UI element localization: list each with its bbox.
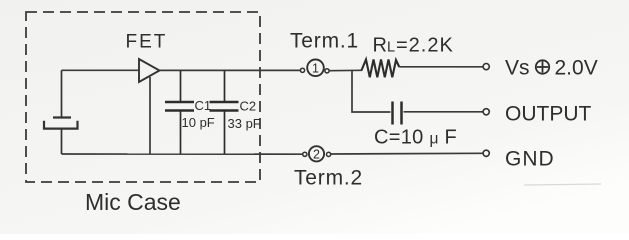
transistor FET (amplifier triangle) — [139, 59, 160, 82]
svg-text:C=10 μ F: C=10 μ F — [374, 127, 457, 149]
mic case enclosure (dashed box) — [26, 12, 260, 182]
svg-text:Term.2: Term.2 — [294, 167, 363, 190]
capacitor C1 — [165, 70, 194, 154]
electret capacitor element (mic capsule) — [44, 70, 78, 154]
faint artifact line — [524, 184, 601, 185]
label RL=2.2K — [373, 34, 454, 56]
wire bottom rail (mic to Term.2) — [62, 153, 303, 155]
svg-text:2.0V: 2.0V — [555, 56, 598, 79]
svg-text:10 pF: 10 pF — [182, 115, 215, 130]
node Term.1 (circled 1) — [307, 60, 324, 77]
svg-text:GND: GND — [505, 147, 555, 170]
svg-text:Term.1: Term.1 — [290, 30, 359, 53]
node dot left of Term.2 — [303, 152, 307, 156]
node Term.2 (circled 2) — [309, 146, 324, 161]
capacitor C (coupling, plates) — [393, 102, 402, 125]
terminal Vs (open circle) — [483, 64, 489, 70]
svg-text:OUTPUT: OUTPUT — [505, 102, 592, 125]
wire top rail (FET output to Term.1) — [160, 69, 301, 71]
wire FET source lead — [149, 77, 151, 154]
wire Term.1 to resistor junction — [330, 69, 363, 71]
terminal GND (open circle) — [483, 150, 489, 156]
svg-text:2: 2 — [313, 147, 320, 161]
svg-text:=2.2K: =2.2K — [396, 34, 454, 56]
wire resistor to Vs terminal — [399, 66, 483, 68]
svg-text:C1: C1 — [195, 98, 212, 113]
svg-text:Vs: Vs — [505, 57, 530, 80]
terminal OUTPUT (open circle) — [483, 109, 489, 115]
svg-text:1: 1 — [312, 62, 319, 76]
svg-text:FET: FET — [126, 32, 168, 53]
capacitor C2 — [210, 70, 239, 154]
svg-text:33 pF: 33 pF — [228, 116, 261, 131]
svg-text:C2: C2 — [240, 99, 257, 114]
node dot right of Term.1 — [325, 69, 329, 73]
node dot left of Term.1 — [300, 68, 304, 72]
svg-text:R: R — [373, 34, 387, 56]
label Vs +2.0V — [505, 56, 598, 79]
wire capacitor to OUTPUT terminal — [404, 111, 484, 113]
svg-text:L: L — [387, 39, 395, 55]
wire Term.2 to GND terminal — [331, 152, 483, 155]
node dot right of Term.2 — [327, 152, 331, 156]
wire junction branch down to coupling capacitor — [352, 71, 391, 112]
svg-text:Mic Case: Mic Case — [85, 189, 181, 215]
wire top rail left (node to FET input) — [62, 69, 140, 71]
resistor RL — [362, 60, 400, 78]
